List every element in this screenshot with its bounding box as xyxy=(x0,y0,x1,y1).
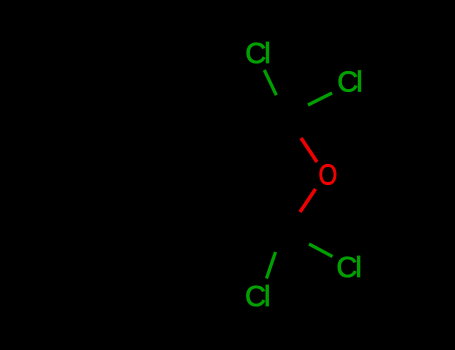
bond O-C3 (lower red half) xyxy=(300,189,316,212)
bond C1-Cl1 (upper half, green) xyxy=(264,70,276,95)
svg-text:Cl: Cl xyxy=(336,252,360,284)
svg-text:Cl: Cl xyxy=(245,281,269,313)
bond C1-Cl2 (label half, green) xyxy=(308,93,332,105)
svg-text:O: O xyxy=(319,160,338,192)
svg-text:Cl: Cl xyxy=(337,67,361,99)
bond C3-Cl3 (label half, green) xyxy=(309,244,333,257)
bond C3-Cl4 (label half, green) xyxy=(267,252,276,279)
svg-text:Cl: Cl xyxy=(245,38,269,70)
bond C1-O (upper red half) xyxy=(301,138,317,162)
